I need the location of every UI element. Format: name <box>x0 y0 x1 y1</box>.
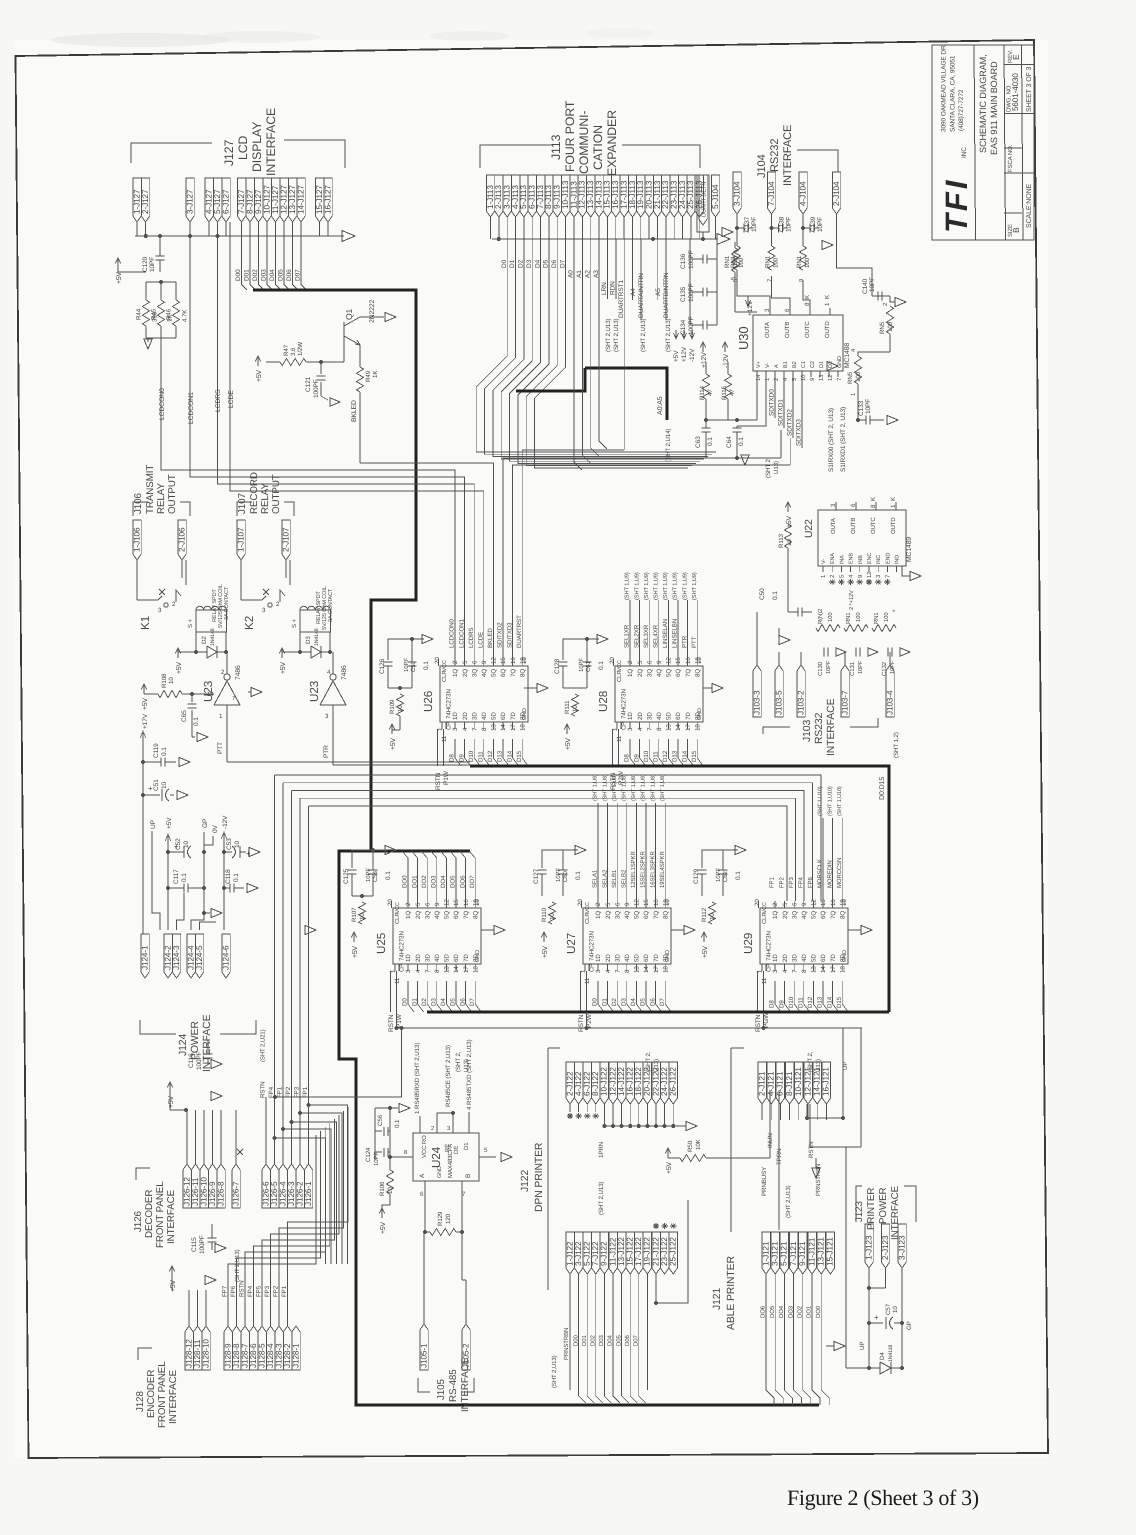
svg-text:C130: C130 <box>817 661 824 676</box>
svg-text:+5V: +5V <box>166 817 173 829</box>
svg-text:100: 100 <box>804 257 811 268</box>
svg-text:(SHT 2,U13): (SHT 2,U13) <box>605 318 612 352</box>
svg-text:S +: S + <box>187 619 194 628</box>
svg-text:3-J123: 3-J123 <box>897 1235 906 1260</box>
svg-text:3.6: 3.6 <box>290 347 297 356</box>
svg-text:15: 15 <box>643 899 650 906</box>
svg-text:J104: J104 <box>756 154 768 178</box>
svg-text:GND: GND <box>522 708 528 720</box>
svg-text:15SEL2SPKR: 15SEL2SPKR <box>640 851 647 888</box>
svg-text:DISPLAY: DISPLAY <box>250 122 264 172</box>
svg-text:0.1: 0.1 <box>735 871 742 880</box>
svg-text:12-J121: 12-J121 <box>803 1067 812 1096</box>
svg-text:15: 15 <box>500 657 507 664</box>
svg-text:SANTA CLARA, CA. 95051: SANTA CLARA, CA. 95051 <box>950 55 957 132</box>
svg-text:J103: J103 <box>802 720 813 742</box>
svg-text:19SEL4SPKR: 19SEL4SPKR <box>659 851 666 888</box>
svg-text:U27: U27 <box>565 933 578 954</box>
svg-text:1Q: 1Q <box>405 911 412 919</box>
svg-text:9: 9 <box>857 575 864 578</box>
svg-text:DO3: DO3 <box>431 875 438 888</box>
svg-text:PRNSTRBN: PRNSTRBN <box>563 1328 570 1360</box>
signal LCDCON1 wire <box>190 236 348 477</box>
svg-text:BKLED: BKLED <box>351 400 358 422</box>
svg-text:12SEL1SPKR: 12SEL1SPKR <box>630 851 637 888</box>
svg-text:R109: R109 <box>389 699 396 714</box>
svg-text:20: 20 <box>754 899 761 906</box>
IC U30 MC1488 <box>753 315 843 371</box>
resistor R108 10 <box>143 685 145 694</box>
svg-text:C1: C1 <box>801 361 807 368</box>
svg-text:3A CONTACT: 3A CONTACT <box>328 588 334 622</box>
svg-text:20: 20 <box>434 657 441 664</box>
svg-text:2: 2 <box>829 575 836 578</box>
svg-text:1-J123: 1-J123 <box>864 1235 873 1260</box>
svg-text:5Q: 5Q <box>491 669 498 677</box>
svg-text:1: 1 <box>219 713 223 720</box>
IC U25 74HC273N <box>393 908 481 964</box>
buffer U23 gate 1 7406 <box>214 681 240 705</box>
svg-text:5Q: 5Q <box>634 911 641 919</box>
svg-text:R107: R107 <box>351 907 358 922</box>
J128 wires up <box>228 1135 316 1326</box>
svg-text:U29: U29 <box>742 933 755 954</box>
svg-text:10PF: 10PF <box>786 217 793 232</box>
svg-text:7: 7 <box>462 1191 466 1198</box>
svg-text:CP: CP <box>766 964 773 972</box>
svg-text:9: 9 <box>798 279 805 282</box>
FP bus nets <box>275 775 822 901</box>
svg-text:J103-4: J103-4 <box>885 690 894 715</box>
svg-text:3090 OAKMEAD VILLAGE DR.: 3090 OAKMEAD VILLAGE DR. <box>941 43 948 132</box>
svg-text:MORSCLK: MORSCLK <box>817 859 824 888</box>
svg-text:INTERFACE: INTERFACE <box>168 1369 179 1424</box>
svg-text:SDITXD0: SDITXD0 <box>769 389 776 416</box>
svg-text:LCDCON0: LCDCON0 <box>449 618 456 648</box>
svg-text:16: 16 <box>830 899 837 906</box>
svg-text:7: 7 <box>767 279 774 282</box>
svg-text:VCC RO: VCC RO <box>421 1135 428 1158</box>
svg-text:DO4: DO4 <box>778 1305 785 1318</box>
svg-text:9-J121: 9-J121 <box>798 1241 807 1266</box>
svg-text:FP2: FP2 <box>285 1086 292 1098</box>
svg-text:SDITXD2: SDITXD2 <box>497 622 504 648</box>
svg-text:5601-4030: 5601-4030 <box>1011 73 1020 111</box>
svg-text:D06: D06 <box>286 269 293 281</box>
svg-text:INA: INA <box>839 555 845 564</box>
svg-text:1N4148: 1N4148 <box>314 628 320 646</box>
svg-text:3D: 3D <box>791 954 798 962</box>
svg-text:D03: D03 <box>261 269 268 281</box>
svg-text:+: + <box>148 784 153 793</box>
RS232 wires to U30 <box>737 270 770 315</box>
svg-text:FP2: FP2 <box>778 877 785 888</box>
svg-text:11: 11 <box>394 977 401 984</box>
svg-text:1-J106: 1-J106 <box>132 527 141 552</box>
svg-text:4.7K: 4.7K <box>182 309 189 322</box>
svg-text:0.1: 0.1 <box>385 871 392 880</box>
svg-text:+5V: +5V <box>702 945 709 958</box>
wire routing J122-J121 <box>656 1200 688 1303</box>
svg-text:1N4118: 1N4118 <box>888 1345 894 1362</box>
svg-text:TPRN: TPRN <box>776 1149 783 1165</box>
svg-text:D3: D3 <box>305 636 312 644</box>
svg-text:(SHT 2,U21): (SHT 2,U21) <box>260 1029 267 1062</box>
signal A4 A5 <box>632 239 634 300</box>
svg-text:RDN: RDN <box>610 281 617 295</box>
svg-text:+5V: +5V <box>256 369 263 382</box>
svg-text:D03: D03 <box>598 1335 605 1346</box>
svg-text:D4: D4 <box>534 259 541 268</box>
J126 tag 7 <box>232 1164 240 1208</box>
svg-text:RS485CE (SHT 2,U13): RS485CE (SHT 2,U13) <box>445 1045 452 1107</box>
svg-text:7Q: 7Q <box>685 669 692 677</box>
svg-text:(SHT 2,U13): (SHT 2,U13) <box>785 1185 792 1218</box>
svg-text:U28: U28 <box>597 691 610 712</box>
thick bus branch down right side <box>371 849 470 852</box>
resistor R113 10 <box>784 524 791 548</box>
svg-text:J124-6: J124-6 <box>221 945 230 970</box>
svg-text:OUTB: OUTB <box>784 322 791 338</box>
svg-text:3Q: 3Q <box>614 911 621 919</box>
svg-text:5D: 5D <box>444 954 451 962</box>
svg-text:+5V: +5V <box>142 697 149 710</box>
svg-text:10: 10 <box>168 677 175 684</box>
svg-text:18: 18 <box>694 724 701 731</box>
svg-text:DUARTAINTRN: DUARTAINTRN <box>638 273 645 318</box>
svg-text:R44: R44 <box>136 308 143 320</box>
UP rail to J123 <box>846 1367 869 1369</box>
svg-text:10: 10 <box>387 1187 394 1194</box>
J127 connector tags <box>133 178 141 222</box>
svg-text:C50: C50 <box>759 588 766 600</box>
transistor Q1 2N2222 <box>343 322 345 340</box>
svg-text:(SHT 2,U13): (SHT 2,U13) <box>665 318 672 352</box>
PRNBUSY wire <box>647 1274 649 1302</box>
svg-text:+12V: +12V <box>681 346 688 362</box>
buffer U23 gate 2 7406 <box>320 681 346 705</box>
J106 tags <box>133 520 141 560</box>
svg-text:0V: 0V <box>212 824 219 833</box>
svg-text:RSTN: RSTN <box>260 1082 267 1098</box>
svg-text:R108: R108 <box>161 673 168 688</box>
svg-text:RN1: RN1 <box>873 613 880 624</box>
svg-text:DO1: DO1 <box>411 875 418 888</box>
svg-text:16-J121: 16-J121 <box>822 1067 831 1096</box>
svg-text:LCDE: LCDE <box>478 632 485 648</box>
2-J104 wire <box>837 214 873 296</box>
resistor R106 10 <box>386 1170 393 1194</box>
J122 even tag marks and dots <box>567 1115 573 1117</box>
svg-text:SHEET 3 OF 3: SHEET 3 OF 3 <box>1026 66 1033 112</box>
J122 even tags <box>566 1062 574 1104</box>
+5V +12V -12V arrows J113 <box>675 330 677 338</box>
relay K2 coil <box>300 606 330 610</box>
svg-text:Figure 2 (Sheet 3 of 3): Figure 2 (Sheet 3 of 3) <box>787 1485 979 1510</box>
svg-text:7Q: 7Q <box>463 911 470 919</box>
RSTN net from U25 to J126 <box>275 1028 402 1097</box>
IC U22 MC1489 <box>818 510 906 566</box>
svg-text:J126: J126 <box>133 1211 144 1232</box>
J128 tags group 1 <box>185 1326 193 1370</box>
svg-text:100: 100 <box>855 371 862 382</box>
svg-text:R46: R46 <box>166 308 173 320</box>
svg-text:(SHT 2,U13): (SHT 2,U13) <box>640 318 647 352</box>
J126 wires nested <box>265 1097 267 1164</box>
+12V -12V arrows U30 <box>702 343 704 352</box>
svg-text:4-J104: 4-J104 <box>798 181 807 206</box>
svg-text:J126-1: J126-1 <box>304 1181 313 1206</box>
svg-text:1: 1 <box>820 575 827 578</box>
J122 odd staircase to thick bus <box>579 1390 586 1403</box>
U24 pin2 pin3 loop <box>437 1113 453 1133</box>
svg-text:6D: 6D <box>675 712 682 720</box>
svg-text:C120: C120 <box>142 256 149 272</box>
svg-text:J106: J106 <box>133 493 144 514</box>
svg-text:4Q: 4Q <box>624 911 631 919</box>
svg-text:J127: J127 <box>222 139 236 166</box>
svg-text:6Q: 6Q <box>675 669 682 677</box>
J128 tags group 2 <box>224 1326 232 1370</box>
svg-text:DO6: DO6 <box>760 1305 767 1318</box>
svg-text:10: 10 <box>709 913 716 920</box>
svg-text:DUARTBINTRN: DUARTBINTRN <box>663 272 670 318</box>
svg-text:LCDRS: LCDRS <box>215 389 222 412</box>
svg-text:0.1: 0.1 <box>772 591 779 600</box>
svg-text:GND: GND <box>665 950 671 962</box>
svg-text:OUTD: OUTD <box>824 321 831 338</box>
svg-text:GND: GND <box>842 950 848 962</box>
svg-text:10PF: 10PF <box>817 217 824 232</box>
svg-text:1K: 1K <box>372 370 379 378</box>
svg-text:4D: 4D <box>481 712 488 720</box>
svg-text:4-J121: 4-J121 <box>767 1071 776 1096</box>
resistor R109 10 <box>396 694 403 716</box>
svg-text:+5V: +5V <box>565 737 572 750</box>
svg-text:SELB2: SELB2 <box>621 869 628 888</box>
svg-text:2-J106: 2-J106 <box>177 527 186 552</box>
IC U24 MAX483CPA <box>413 1133 479 1181</box>
svg-text:R49: R49 <box>365 370 372 382</box>
svg-text:DO0: DO0 <box>815 1305 822 1318</box>
resistor R49 1K <box>356 367 363 392</box>
svg-text:2Q: 2Q <box>782 911 789 919</box>
J104 label bracket <box>797 150 838 172</box>
svg-text:OUTC: OUTC <box>804 321 811 338</box>
svg-text:4: 4 <box>327 669 331 676</box>
svg-text:C51: C51 <box>153 779 160 791</box>
svg-text:3D: 3D <box>614 954 621 962</box>
svg-text:RS232: RS232 <box>814 712 825 744</box>
svg-text:GND: GND <box>697 708 703 720</box>
svg-text:6Q: 6Q <box>453 911 460 919</box>
RSTN net line <box>397 1027 863 1029</box>
svg-text:3D: 3D <box>471 712 478 720</box>
svg-text:UP: UP <box>150 820 157 829</box>
svg-text:17: 17 <box>463 966 470 973</box>
J123 tags <box>865 1224 873 1268</box>
svg-text:1Q: 1Q <box>452 669 459 677</box>
svg-text:D02: D02 <box>590 1335 597 1346</box>
svg-text:2-J104: 2-J104 <box>832 181 841 206</box>
resistor R111 10 <box>571 694 578 716</box>
signal LCDRS wire <box>218 236 357 484</box>
svg-text:16SEL3SPKR: 16SEL3SPKR <box>649 851 656 888</box>
svg-text:74HC273N: 74HC273N <box>621 689 628 719</box>
Q1 emitter <box>344 336 360 345</box>
capacitor C124 10PF <box>375 1151 382 1153</box>
tags 15/16 wires <box>319 222 321 236</box>
svg-text:3: 3 <box>158 607 162 614</box>
svg-text:7Q: 7Q <box>653 911 660 919</box>
svg-text:U24: U24 <box>430 1146 443 1168</box>
svg-text:(SHT 2,U13): (SHT 2,U13) <box>613 318 620 352</box>
svg-text:7486: 7486 <box>341 665 348 680</box>
svg-text:U25: U25 <box>375 932 388 954</box>
svg-text:6-J127: 6-J127 <box>221 189 230 214</box>
+5V rail J127 <box>117 259 119 268</box>
svg-text:FP1: FP1 <box>277 1086 284 1098</box>
svg-text:10: 10 <box>161 781 168 789</box>
svg-text:2Q: 2Q <box>415 911 422 919</box>
svg-text:12: 12 <box>827 375 834 381</box>
svg-text:C125: C125 <box>343 868 350 884</box>
svg-text:2: 2 <box>172 601 176 608</box>
svg-text:(SHT 1,U10): (SHT 1,U10) <box>837 786 843 816</box>
capacitor C56 0.1 <box>375 1130 382 1132</box>
svg-text:J103-2: J103-2 <box>796 690 805 715</box>
svg-text:DECODER: DECODER <box>144 1190 155 1238</box>
svg-text:3-J127: 3-J127 <box>185 189 194 214</box>
svg-text:13-J121: 13-J121 <box>817 1237 826 1266</box>
svg-text:(SHT 1,U8): (SHT 1,U8) <box>602 774 608 801</box>
resistor R50 10K <box>667 1149 669 1158</box>
svg-text:16-J127: 16-J127 <box>323 185 332 214</box>
svg-text:10: 10 <box>800 374 807 381</box>
svg-text:+: + <box>874 1313 879 1322</box>
svg-text:4D: 4D <box>624 954 631 962</box>
svg-text:3Q: 3Q <box>424 911 431 919</box>
svg-text:20: 20 <box>387 899 394 906</box>
svg-text:13: 13 <box>811 966 818 973</box>
J126 tags group 1 <box>183 1164 191 1208</box>
svg-text:18: 18 <box>472 966 479 973</box>
svg-text:U22: U22 <box>804 519 815 538</box>
svg-text:RN1: RN1 <box>730 255 737 268</box>
svg-text:12: 12 <box>444 899 451 906</box>
svg-text:10: 10 <box>892 1306 899 1313</box>
svg-text:10PF: 10PF <box>858 660 864 674</box>
svg-text:15: 15 <box>820 899 827 906</box>
svg-text:P1W: P1W <box>396 1013 403 1028</box>
svg-text:D01: D01 <box>581 1335 588 1346</box>
svg-text:6D: 6D <box>500 712 507 720</box>
svg-text:2-J123: 2-J123 <box>881 1235 890 1260</box>
signals SDITXD0-3 underlined <box>774 377 776 418</box>
RN5 100 upper resistor <box>872 295 890 297</box>
X mark J126 <box>237 1149 243 1155</box>
svg-text:6Q: 6Q <box>820 911 827 919</box>
svg-text:INTERFACE: INTERFACE <box>264 108 278 176</box>
svg-text:+12V: +12V <box>701 352 708 368</box>
+17V rail <box>142 733 144 934</box>
svg-text:4 RS485TXD (SHT 2,U13): 4 RS485TXD (SHT 2,U13) <box>466 1039 473 1110</box>
svg-text:INTERFACE: INTERFACE <box>460 1357 471 1412</box>
svg-text:C56: C56 <box>377 1114 384 1126</box>
diode D3 1N4148 <box>299 632 301 652</box>
svg-text:D1: D1 <box>463 1142 470 1150</box>
svg-text:2: 2 <box>431 1125 434 1132</box>
svg-text:D04: D04 <box>607 1335 614 1346</box>
svg-text:15: 15 <box>675 657 682 664</box>
IC U27 74HC273N <box>583 908 671 964</box>
thick bus bottom D bus <box>427 1010 889 1013</box>
svg-text:DPN PRINTER: DPN PRINTER <box>534 1142 545 1212</box>
svg-text:10: 10 <box>521 657 528 664</box>
svg-text:15: 15 <box>453 899 460 906</box>
capacitors C137 C138 C139 10PF <box>736 214 738 242</box>
svg-text:OUTA: OUTA <box>764 322 771 338</box>
svg-text:D05: D05 <box>615 1335 622 1346</box>
svg-text:FP3: FP3 <box>294 1086 301 1098</box>
svg-text:12: 12 <box>811 899 818 906</box>
svg-text:2 *+12V: 2 *+12V <box>849 590 855 610</box>
thick data bus from J127 to U25 <box>253 290 819 1405</box>
svg-text:C118: C118 <box>225 869 232 884</box>
svg-text:+5V: +5V <box>168 1095 175 1108</box>
svg-text:-12V: -12V <box>222 815 229 829</box>
J103 tag wires <box>756 652 758 665</box>
relay K1 coil <box>196 606 226 610</box>
Q1 base wire <box>321 361 344 363</box>
svg-text:D02: D02 <box>252 269 259 281</box>
svg-text:P2W: P2W <box>586 1013 593 1028</box>
svg-text:RELAY: RELAY <box>156 483 167 514</box>
thick bus D0:D15 <box>470 766 889 1012</box>
svg-text:C140: C140 <box>862 278 869 294</box>
svg-text:100: 100 <box>738 257 745 268</box>
J113 label bracket <box>480 145 553 168</box>
svg-text:C133: C133 <box>858 400 865 416</box>
svg-text:3-J104: 3-J104 <box>732 181 741 206</box>
J124 tags <box>141 934 149 978</box>
svg-text:INTERFACE: INTERFACE <box>166 1189 177 1244</box>
svg-text:6D: 6D <box>820 954 827 962</box>
svg-text:D07: D07 <box>633 1335 640 1346</box>
svg-text:C127: C127 <box>533 868 540 884</box>
svg-text:J107: J107 <box>237 493 248 514</box>
svg-text:V-: V- <box>765 363 771 368</box>
svg-text:SELA2: SELA2 <box>601 869 608 888</box>
svg-text:CATION: CATION <box>591 125 605 170</box>
svg-text:10K: 10K <box>695 1138 702 1150</box>
svg-text:PGW: PGW <box>763 1012 770 1028</box>
svg-text:INB: INB <box>858 555 864 564</box>
svg-text:C63: C63 <box>695 436 702 448</box>
svg-text:DUARTRST1: DUARTRST1 <box>618 280 625 318</box>
J121 bracket <box>730 1048 732 1232</box>
svg-text:+5V: +5V <box>116 271 123 284</box>
svg-text:10PF: 10PF <box>865 399 872 414</box>
J107 tags <box>237 520 245 560</box>
svg-text:SEL2XR: SEL2XR <box>633 624 640 648</box>
svg-text:RN1: RN1 <box>796 255 803 268</box>
svg-text:LCDCON1: LCDCON1 <box>188 392 195 424</box>
svg-text:MC1489: MC1489 <box>906 537 913 562</box>
svg-text:SCHEMATIC DIAGRAM,: SCHEMATIC DIAGRAM, <box>978 54 988 153</box>
svg-text:7D: 7D <box>463 954 470 962</box>
svg-text:UP: UP <box>859 1342 866 1350</box>
